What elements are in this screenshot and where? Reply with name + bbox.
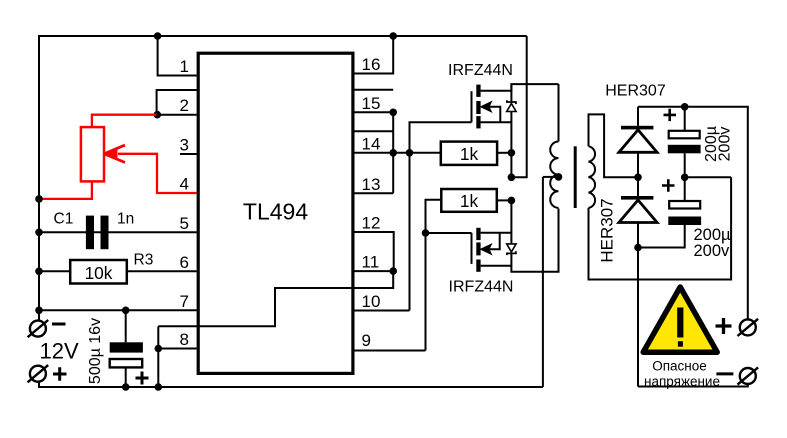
minus sign output xyxy=(716,372,733,375)
svg-text:500µ 16v: 500µ 16v xyxy=(87,318,104,384)
diode D1 HER307 upper xyxy=(619,107,657,196)
junction dot FET column / top rail xyxy=(508,174,516,182)
svg-text:IRFZ44N: IRFZ44N xyxy=(449,279,514,296)
junction dot pin8/bottom-rail xyxy=(155,383,163,391)
svg-text:1n: 1n xyxy=(117,211,134,228)
wire 1k lower right xyxy=(497,199,512,201)
junction dot pin1/top-rail xyxy=(154,32,162,40)
wire pin9 column to lower 1k xyxy=(426,200,442,351)
primary winding xyxy=(550,142,558,208)
pin 13 tab bottom xyxy=(355,192,394,194)
wire pin 6 right of R3 xyxy=(127,270,197,272)
svg-text:9: 9 xyxy=(362,331,371,350)
wire 1k upper right xyxy=(497,152,511,154)
capacitor C1 xyxy=(86,216,109,250)
wire M2 to right loop xyxy=(685,176,731,178)
svg-text:4: 4 xyxy=(180,175,189,194)
plus sign C4 xyxy=(662,179,675,191)
svg-text:13: 13 xyxy=(362,175,381,194)
wiper arrow xyxy=(118,154,197,193)
junction dot rail/pin5 xyxy=(35,229,43,237)
svg-text:3: 3 xyxy=(180,136,189,155)
svg-text:6: 6 xyxy=(180,253,189,272)
terminal output plus xyxy=(738,319,759,336)
junction dot pin8 xyxy=(155,345,163,353)
junction dot N diode/cap bottom xyxy=(634,244,642,252)
svg-text:200v: 200v xyxy=(716,127,733,162)
wire pin 10 stub xyxy=(355,310,410,312)
wire pin 8 drop to bottom rail xyxy=(157,326,159,387)
wire top-rail riser to FET column xyxy=(511,36,526,177)
svg-text:8: 8 xyxy=(180,330,189,349)
secondary top feed xyxy=(589,114,639,177)
svg-text:IRFZ44N: IRFZ44N xyxy=(448,62,513,79)
wire pot top to pin2 xyxy=(92,115,157,126)
terminal 12V plus xyxy=(28,365,49,382)
capacitor C3 200u200v upper xyxy=(668,107,701,178)
wire lower gate feed xyxy=(426,232,472,234)
channel bars xyxy=(476,85,480,97)
diode D2 HER307 lower xyxy=(619,196,657,387)
secondary bottom feed xyxy=(589,177,732,279)
junction dot rail/pot-bottom xyxy=(35,195,43,203)
junction dot pin15 xyxy=(389,109,397,117)
svg-text:TL494: TL494 xyxy=(243,198,308,224)
wire pin 15 stub xyxy=(355,111,394,113)
wire pin 8 stub xyxy=(158,348,196,350)
junction dot pin14/tie xyxy=(389,149,397,157)
transformer T1 xyxy=(543,84,731,387)
pin 2 tab xyxy=(157,90,197,115)
svg-text:15: 15 xyxy=(362,94,381,113)
drain wire xyxy=(481,265,512,267)
wire gate column pin10 to upper gate xyxy=(410,122,472,310)
wire pin 7 xyxy=(39,309,197,311)
svg-text:10: 10 xyxy=(362,292,381,311)
svg-text:Опасное: Опасное xyxy=(652,359,707,374)
core xyxy=(574,146,577,208)
svg-text:HER307: HER307 xyxy=(605,83,666,100)
drain wire xyxy=(481,84,559,91)
wire bottom rail xyxy=(39,381,543,387)
junction dot rail/pin6 xyxy=(35,268,43,276)
svg-text:12V: 12V xyxy=(40,339,79,364)
plus sign 12V xyxy=(53,367,67,381)
minus sign 12V xyxy=(52,323,66,326)
wire pot bottom to rail xyxy=(39,183,92,199)
wire pin 5 xyxy=(39,231,197,233)
capacitor C2 500u16v electrolytic xyxy=(110,310,143,387)
body arrow xyxy=(489,107,500,123)
plus sign C2 xyxy=(136,372,149,385)
gate line xyxy=(471,91,473,122)
wire pin 9 stub xyxy=(355,350,426,352)
resistor R2 1k lower xyxy=(441,189,497,212)
svg-text:14: 14 xyxy=(362,134,381,153)
pin 15 tab top xyxy=(355,89,394,91)
wire center tap to bottom riser xyxy=(543,176,559,178)
wire pins 15-14-13 tie xyxy=(392,112,394,193)
pin 3 stub xyxy=(180,153,197,155)
junction dot 1k upper right xyxy=(508,149,516,157)
pin 14 tab top xyxy=(355,130,394,132)
wire left rail xyxy=(38,35,40,321)
junction dot pin11 xyxy=(389,267,397,275)
svg-text:200v: 200v xyxy=(694,242,731,260)
wire top rail xyxy=(39,35,527,37)
wire pin 1 to top rail xyxy=(158,36,197,76)
svg-text:1: 1 xyxy=(180,57,189,76)
plus sign C3 xyxy=(664,109,677,121)
junction dot pin2/red xyxy=(154,111,162,119)
junction dot rail/pin7 xyxy=(35,307,43,315)
primary feed from Q1 drain xyxy=(558,84,560,141)
svg-text:1k: 1k xyxy=(460,191,479,211)
terminal output minus xyxy=(738,367,759,384)
wire pin 8 tab top and internal jog to pin 11 xyxy=(158,271,393,326)
junction dot top/capC3 xyxy=(681,103,689,111)
junction dot M1 secondary-top/diodes xyxy=(634,174,642,182)
IC U1 TL494 body xyxy=(198,53,353,373)
svg-text:12: 12 xyxy=(362,214,381,233)
wire pin 6 left of R3 xyxy=(39,270,70,272)
wire pin 16 to top rail xyxy=(355,36,394,74)
wire pin 11 stub xyxy=(355,270,394,272)
warning box bottom xyxy=(638,384,748,387)
svg-text:C1: C1 xyxy=(54,211,74,228)
body diode xyxy=(510,84,512,102)
svg-text:2: 2 xyxy=(180,96,189,115)
body arrow xyxy=(489,233,500,249)
junction dot lower gate xyxy=(422,229,430,237)
svg-text:напряжение: напряжение xyxy=(644,374,720,389)
gate line xyxy=(471,233,473,264)
svg-text:11: 11 xyxy=(362,253,380,272)
junction dot pin7/cap xyxy=(122,307,130,315)
pot body xyxy=(81,127,104,181)
resistor R1 1k upper xyxy=(441,142,497,165)
wire bottom rail riser xyxy=(542,177,544,387)
source wire xyxy=(481,232,512,234)
wire pin 14 to 1k R1 xyxy=(355,152,441,154)
transistor Q2 IRFZ44N lower xyxy=(472,200,559,271)
svg-text:7: 7 xyxy=(180,292,189,311)
junction dot bottom/cap500 xyxy=(122,383,130,391)
plus sign output xyxy=(716,318,732,334)
svg-text:5: 5 xyxy=(180,214,189,233)
junction dot pin14/gate-column xyxy=(406,149,414,157)
junction dot M2 caps mid xyxy=(681,174,689,182)
potentiometer P1 (red) xyxy=(39,115,197,199)
capacitor C4 200u200v lower xyxy=(638,177,701,247)
terminal 12V minus xyxy=(28,320,49,337)
channel bars xyxy=(476,228,480,240)
svg-text:R3: R3 xyxy=(134,252,154,269)
wire top junction rail xyxy=(638,107,748,319)
transistor Q1 IRFZ44N upper xyxy=(472,84,559,177)
source wire xyxy=(481,121,512,123)
wire pin 12 stub and drop to pin 11 xyxy=(355,232,394,271)
svg-text:HER307: HER307 xyxy=(597,198,616,262)
secondary winding xyxy=(589,146,596,208)
center tap dot xyxy=(555,173,563,181)
svg-text:1k: 1k xyxy=(460,144,479,164)
body diode xyxy=(510,200,512,243)
junction dot 1k lower right xyxy=(508,197,516,205)
warning triangle xyxy=(643,287,717,352)
junction dot pin16/top-rail xyxy=(389,32,397,40)
svg-text:10k: 10k xyxy=(85,263,113,283)
resistor R3 10k xyxy=(70,260,127,284)
svg-text:16: 16 xyxy=(362,55,381,74)
